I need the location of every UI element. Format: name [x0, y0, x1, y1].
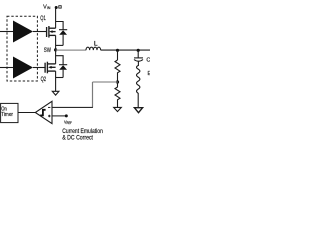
svg-text:L: L [94, 41, 98, 48]
wire VIN jog to D1 cathode [56, 22, 64, 30]
node VOUT-R1 dot [116, 49, 119, 52]
node VOUT-C dot [137, 49, 140, 52]
hysteresis glyph [40, 110, 45, 116]
svg-text:VREF: VREF [64, 119, 72, 125]
inductor L [86, 47, 101, 50]
capacitor C (output cap) [134, 58, 143, 61]
svg-text:VIN: VIN [43, 4, 50, 10]
resistor R2 (lower feedback) [115, 82, 120, 108]
wire D1 anode to Q1 source rail [56, 44, 64, 46]
diode D2 (Q2 body diode) [59, 65, 67, 78]
wire VIN rail down to Q1 drain [55, 8, 57, 29]
minus sign [48, 106, 50, 108]
svg-text:SW: SW [44, 47, 51, 54]
svg-text:& DC Correct: & DC Correct [62, 135, 93, 142]
driver U1 (top gate driver triangle) [13, 21, 33, 43]
wire to R1 [117, 50, 119, 60]
wire SW to inductor (gray) [56, 49, 87, 51]
arrow Q1 body [49, 30, 52, 33]
svg-text:Q1: Q1 [40, 15, 46, 22]
wire SW jog to D2 cathode [56, 56, 64, 65]
wire FB gray: divider to comparator [93, 81, 118, 83]
terminal VIN square [59, 6, 61, 8]
transistor Q1 (high-side NMOS) [47, 26, 56, 38]
block on-timer [1, 103, 18, 122]
wire D2 anode to Q2 source rail [56, 77, 64, 79]
node FB dot [116, 80, 119, 83]
wire Q1 source to SW node [55, 35, 57, 50]
ground (feedback divider) [114, 107, 122, 111]
ground (output cap) [134, 108, 142, 113]
driver U2 (bottom gate driver triangle) [13, 57, 33, 79]
svg-text:Q2: Q2 [41, 76, 47, 83]
dashed driver box [7, 16, 37, 81]
transistor Q2 (low-side NMOS) [45, 62, 56, 74]
wire comparator plus stub [52, 115, 66, 117]
wire to capacitor C [137, 50, 139, 58]
diode D1 (Q1 body diode) [59, 30, 67, 46]
plus sign [48, 115, 51, 118]
svg-text:C: C [146, 58, 150, 64]
resistor ESR [137, 66, 140, 108]
wire comparator minus input [52, 106, 93, 108]
wire VOUT rail [101, 49, 150, 51]
wire C to ESR [137, 61, 139, 66]
ground (Q2 source) [52, 91, 59, 95]
arrow Q2 body [48, 66, 51, 69]
wire FB riser [92, 82, 94, 107]
node VIN dot [55, 6, 58, 9]
wire comparator output to on-timer [18, 112, 35, 114]
node VREF dot [65, 114, 68, 117]
op-amp U3 (PWM comparator, points left) [35, 101, 52, 123]
wire driver U1 to Q1 gate [33, 31, 47, 33]
node SW dot [54, 48, 57, 51]
svg-text:Timer: Timer [1, 112, 13, 118]
wire driver U2 to Q2 gate [33, 67, 46, 69]
wire input to driver U1 [0, 31, 13, 33]
wire input to driver U2 [0, 67, 13, 69]
wire Q2 source to ground [55, 71, 57, 91]
svg-text:ES: ES [148, 71, 151, 77]
wire Q2 drain from SW [55, 50, 57, 64]
resistor R1 (upper feedback) [115, 60, 120, 82]
